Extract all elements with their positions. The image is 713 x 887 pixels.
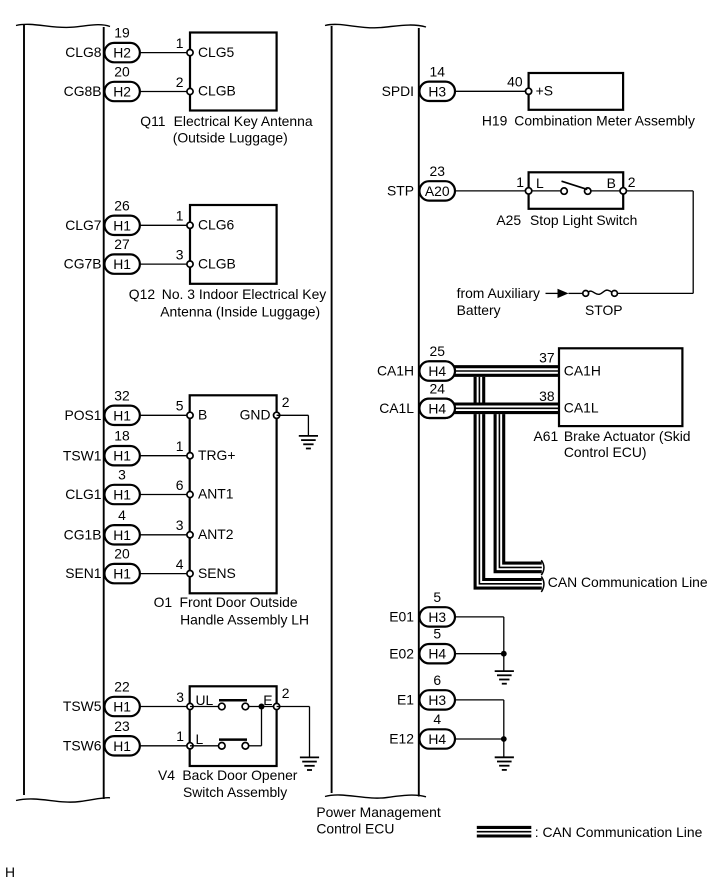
svg-text:3: 3 [176,517,184,533]
svg-text:40: 40 [507,73,523,89]
svg-text:6: 6 [176,477,184,493]
wire STP to A25 [455,190,529,192]
svg-text:+S: +S [536,83,553,99]
svg-text:H1: H1 [113,527,131,543]
svg-text:STOP: STOP [585,302,623,318]
svg-text:20: 20 [114,546,130,562]
wire E1 to ground junction [455,699,504,701]
chevron end upper [541,560,544,575]
svg-text:3: 3 [176,247,184,263]
svg-text:from Auxiliary: from Auxiliary [457,285,540,301]
left ECU bus top torn edge [16,24,110,27]
svg-text:STP: STP [387,183,414,199]
svg-text:H4: H4 [428,363,446,379]
svg-text:CLG7: CLG7 [65,217,102,233]
svg-text:E02: E02 [389,645,414,661]
svg-text:26: 26 [114,197,130,213]
wire [140,573,190,575]
svg-text:GND: GND [240,407,271,423]
svg-text:Control ECU: Control ECU [316,820,394,836]
svg-text:CLG5: CLG5 [198,44,235,60]
svg-text:H4: H4 [428,646,446,662]
svg-text:L: L [536,175,544,191]
svg-text:32: 32 [114,387,130,403]
svg-text:A25: A25 [496,212,521,228]
svg-text:No. 3 Indoor Electrical Key: No. 3 Indoor Electrical Key [162,286,327,302]
svg-text:14: 14 [429,63,445,79]
svg-text:Brake Actuator (Skid: Brake Actuator (Skid [564,428,691,444]
wire [140,91,190,93]
component box Q12 No. 3 Indoor Electrical Key Antenna (Inside Luggage) [190,205,277,284]
wire E12 to ground junction [455,738,504,740]
svg-text:5: 5 [433,589,441,605]
svg-text:23: 23 [114,718,130,734]
svg-text:H3: H3 [428,609,446,625]
svg-text:2: 2 [282,394,290,410]
svg-text:4: 4 [176,556,184,572]
switch L contacts [190,745,219,747]
svg-text:1: 1 [516,174,524,190]
svg-text:1: 1 [176,35,184,51]
connector pill CA1H redraw [419,361,455,380]
ground symbol [495,670,514,672]
svg-text:1: 1 [176,208,184,224]
chevron end lower [541,576,544,592]
right ECU bus right line [418,28,420,797]
arrow [558,289,569,298]
svg-text:CA1L: CA1L [564,400,599,416]
svg-text:CLGB: CLGB [198,255,236,271]
svg-text:SPDI: SPDI [382,83,414,99]
svg-text:(Outside Luggage): (Outside Luggage) [173,130,288,146]
svg-text:B: B [198,407,207,423]
svg-text:H2: H2 [113,45,131,61]
svg-text:Q11: Q11 [140,113,165,129]
wire B terminal to STOP fuse [626,190,693,192]
wire SPDI to H19 [455,90,529,92]
junction node [501,651,507,657]
wire [140,706,190,708]
left ECU bus bottom torn edge [16,798,110,802]
CAN wire CA1H to A61 pin 37 [452,365,559,377]
svg-text:Handle Assembly LH: Handle Assembly LH [180,611,309,627]
svg-text:4: 4 [118,507,126,523]
svg-text:37: 37 [539,350,555,366]
svg-text:POS1: POS1 [64,407,101,423]
svg-text:L: L [196,731,204,747]
svg-text:A61: A61 [534,428,559,444]
svg-text:Combination Meter Assembly: Combination Meter Assembly [514,113,695,129]
svg-text:4: 4 [433,711,441,727]
svg-text:5: 5 [176,398,184,414]
svg-text:H1: H1 [113,448,131,464]
svg-text:H19: H19 [482,113,508,129]
wire [140,494,190,496]
legend CAN communication line symbol [477,826,532,838]
junction node [259,704,265,710]
svg-text:TSW6: TSW6 [63,737,102,753]
wire [140,224,190,226]
svg-text:25: 25 [429,343,445,359]
CAN branch from CA1L down to chevron (upper L) [499,408,541,567]
right ECU bus bottom torn edge [325,795,426,798]
svg-text:5: 5 [433,626,441,642]
svg-text:TSW1: TSW1 [63,447,102,463]
svg-text:H3: H3 [428,692,446,708]
svg-text:3: 3 [118,467,126,483]
svg-text:CLG6: CLG6 [198,217,235,233]
svg-text:H1: H1 [113,256,131,272]
svg-text:CA1H: CA1H [564,362,601,378]
svg-text:CG8B: CG8B [64,83,102,99]
svg-text:E1: E1 [397,692,414,708]
wire GND to ground [277,414,309,416]
wire [140,52,190,54]
svg-text:CA1H: CA1H [377,363,414,379]
svg-text:Power Management: Power Management [316,804,440,820]
svg-text:H1: H1 [113,407,131,423]
svg-text:Battery: Battery [457,302,501,318]
svg-text:Stop Light Switch: Stop Light Switch [530,212,637,228]
svg-text:UL: UL [196,692,214,708]
svg-text:H: H [5,864,15,880]
component box H19 Combination Meter Assembly [529,73,624,110]
svg-text:V4: V4 [158,767,175,783]
right ECU bus left line [331,26,333,793]
svg-text:Antenna (Inside Luggage): Antenna (Inside Luggage) [160,303,320,319]
switch UL contacts [190,706,219,708]
wire E to ground [277,706,310,708]
left ECU bus right line [103,27,105,799]
CAN wire CA1L to A61 pin 38 [452,403,559,415]
svg-text:E01: E01 [389,609,414,625]
svg-text:24: 24 [429,380,445,396]
wire [140,745,190,747]
svg-text:23: 23 [429,163,445,179]
svg-text:H1: H1 [113,699,131,715]
svg-text:CA1L: CA1L [379,400,414,416]
CAN branch from CA1H down to chevron (lower L) [479,371,541,584]
component box A61 Brake Actuator (Skid Control ECU) [559,348,682,426]
svg-text:Control ECU): Control ECU) [564,444,647,460]
svg-text:CLG8: CLG8 [65,44,102,60]
svg-text:E: E [263,692,272,708]
svg-text:1: 1 [176,438,184,454]
svg-text:20: 20 [114,64,130,80]
wire E02 to ground junction [455,653,504,655]
switch contacts and blade [532,190,561,192]
wire [140,414,190,416]
ground symbol [495,756,514,758]
svg-text:Back Door Opener: Back Door Opener [182,767,297,783]
svg-text:CLG1: CLG1 [65,486,102,502]
svg-text:ANT2: ANT2 [198,526,234,542]
svg-text:TSW5: TSW5 [63,698,102,714]
wire E01 to ground junction [455,616,504,618]
svg-text:B: B [607,175,616,191]
wire L contact up to E node [249,745,262,747]
svg-text:CAN Communication Line: CAN Communication Line [548,574,708,590]
svg-text:27: 27 [114,236,130,252]
svg-text:SEN1: SEN1 [65,565,102,581]
svg-text:H4: H4 [428,400,446,416]
svg-text:: CAN Communication Line: : CAN Communication Line [535,824,703,840]
svg-text:CG7B: CG7B [64,256,102,272]
svg-text:2: 2 [176,74,184,90]
svg-text:CLGB: CLGB [198,83,236,99]
svg-text:H1: H1 [113,487,131,503]
svg-text:E12: E12 [389,731,414,747]
svg-text:A20: A20 [425,183,450,199]
svg-text:Front Door Outside: Front Door Outside [180,594,298,610]
svg-text:1: 1 [176,728,184,744]
svg-text:18: 18 [114,428,130,444]
svg-text:Q12: Q12 [129,286,156,302]
svg-text:O1: O1 [154,594,173,610]
svg-text:Electrical Key Antenna: Electrical Key Antenna [174,113,313,129]
junction node [501,736,507,742]
svg-text:3: 3 [176,689,184,705]
connector pill CA1L redraw [419,399,455,418]
component box A25 Stop Light Switch [529,172,624,209]
svg-text:6: 6 [433,672,441,688]
svg-text:2: 2 [282,685,290,701]
svg-text:H2: H2 [113,84,131,100]
svg-text:2: 2 [628,174,636,190]
right ECU bus top torn edge [325,24,426,28]
svg-text:SENS: SENS [198,565,236,581]
left ECU bus left line [23,25,25,795]
component box V4 Back Door Opener Switch Assembly [190,686,277,766]
svg-text:H4: H4 [428,731,446,747]
wire [140,263,190,265]
component box Q11 Electrical Key Antenna (Outside Luggage) [190,33,277,111]
fuse STOP [612,291,618,297]
svg-text:TRG+: TRG+ [198,447,235,463]
component box O1 Front Door Outside Handle Assembly LH [190,395,277,593]
svg-text:H1: H1 [113,217,131,233]
svg-text:22: 22 [114,679,130,695]
svg-text:ANT1: ANT1 [198,486,234,502]
svg-text:H1: H1 [113,566,131,582]
svg-text:H1: H1 [113,738,131,754]
svg-text:H3: H3 [428,83,446,99]
wire [140,455,190,457]
ground symbol [300,756,319,758]
svg-text:19: 19 [114,25,130,41]
svg-text:CG1B: CG1B [64,526,102,542]
ground symbol [299,435,318,437]
wire [140,534,190,536]
svg-text:38: 38 [539,388,555,404]
svg-text:Switch Assembly: Switch Assembly [183,784,287,800]
